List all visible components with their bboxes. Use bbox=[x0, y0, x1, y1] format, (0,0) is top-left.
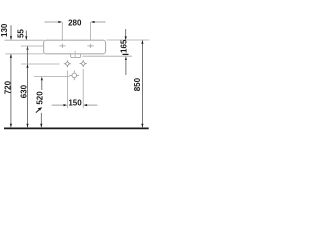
520-level extension line bbox=[34, 76, 70, 78]
svg-text:130: 130 bbox=[0, 23, 9, 37]
tap hole cross right bbox=[87, 44, 93, 49]
dim 165 upper arrowhead bbox=[125, 36, 127, 40]
drain tab bbox=[71, 54, 81, 58]
dim 165 underline bar bbox=[123, 53, 129, 55]
svg-text:280: 280 bbox=[68, 18, 82, 27]
svg-text:55: 55 bbox=[16, 29, 25, 38]
dim 150 arrow right bbox=[83, 104, 87, 106]
dim 280 arrow right bbox=[91, 21, 95, 23]
dim 720 stem bbox=[10, 54, 12, 127]
dim 850 bottom arrowhead bbox=[141, 124, 143, 128]
dim 165 lower stem bbox=[125, 59, 127, 76]
dim 630 bottom arrowhead bbox=[26, 124, 28, 128]
630-level extension line bbox=[21, 63, 60, 65]
dim 850 stem bbox=[141, 40, 143, 127]
dim 520 top arrowhead bbox=[41, 77, 43, 81]
dim 520 upper stem bbox=[41, 80, 43, 91]
dim 850 top arrowhead bbox=[141, 40, 143, 44]
dim 55 lower arrowhead bbox=[26, 46, 28, 50]
washbasin outline bbox=[44, 40, 106, 54]
dim 150 line right segment bbox=[85, 104, 98, 106]
svg-text:150: 150 bbox=[68, 99, 82, 108]
dim 130 arrow stem bbox=[10, 25, 12, 39]
dim 630 top arrowhead bbox=[26, 64, 28, 68]
dim 280 arrow left bbox=[58, 21, 62, 23]
dim 150 arrow left bbox=[64, 104, 68, 106]
tap hole cross left bbox=[59, 44, 65, 49]
55-level extension line bbox=[21, 45, 44, 47]
svg-text:520: 520 bbox=[36, 91, 45, 105]
dim 720 bottom arrowhead bbox=[10, 124, 12, 128]
dim 55 upper arrowhead bbox=[25, 36, 27, 40]
shared stem 55/630 down to floor bbox=[27, 46, 29, 127]
floor line bbox=[4, 127, 149, 129]
dim 720 top arrowhead bbox=[10, 54, 12, 58]
dim 280 line left segment bbox=[45, 21, 62, 23]
dim 280 extension line right bbox=[90, 22, 92, 40]
dim 150 extension line left bbox=[66, 71, 68, 109]
svg-text:850: 850 bbox=[133, 77, 142, 91]
dim 150 extension line right bbox=[82, 69, 84, 108]
dim 165 lower arrowhead bbox=[125, 56, 127, 60]
dim 520 lower stem bbox=[40, 113, 42, 127]
fixing hole diamond right bbox=[80, 60, 87, 67]
drain circle bbox=[70, 71, 80, 81]
dim 520 bottom arrowhead bbox=[40, 124, 42, 128]
basin bottom extension line left bbox=[5, 53, 44, 55]
dim 150 line left segment bbox=[52, 104, 66, 106]
dim 520 oblique leader arrow bbox=[36, 109, 40, 113]
drain centerline bbox=[74, 51, 76, 58]
fixing hole diamond left bbox=[64, 60, 71, 67]
dim 130 arrowhead bbox=[10, 36, 12, 40]
tab bottom extension line bbox=[82, 55, 132, 57]
dim 280 extension line left bbox=[61, 22, 63, 40]
svg-text:165: 165 bbox=[120, 39, 129, 53]
top rim extension line left bbox=[5, 39, 44, 41]
dim 280 line right segment bbox=[92, 21, 106, 23]
dim 165 upper stem bbox=[125, 29, 127, 40]
svg-text:630: 630 bbox=[20, 84, 29, 98]
svg-text:720: 720 bbox=[3, 80, 12, 94]
basin top extension line right bbox=[106, 39, 149, 41]
dim 55 upper arrow stem bbox=[25, 31, 27, 40]
